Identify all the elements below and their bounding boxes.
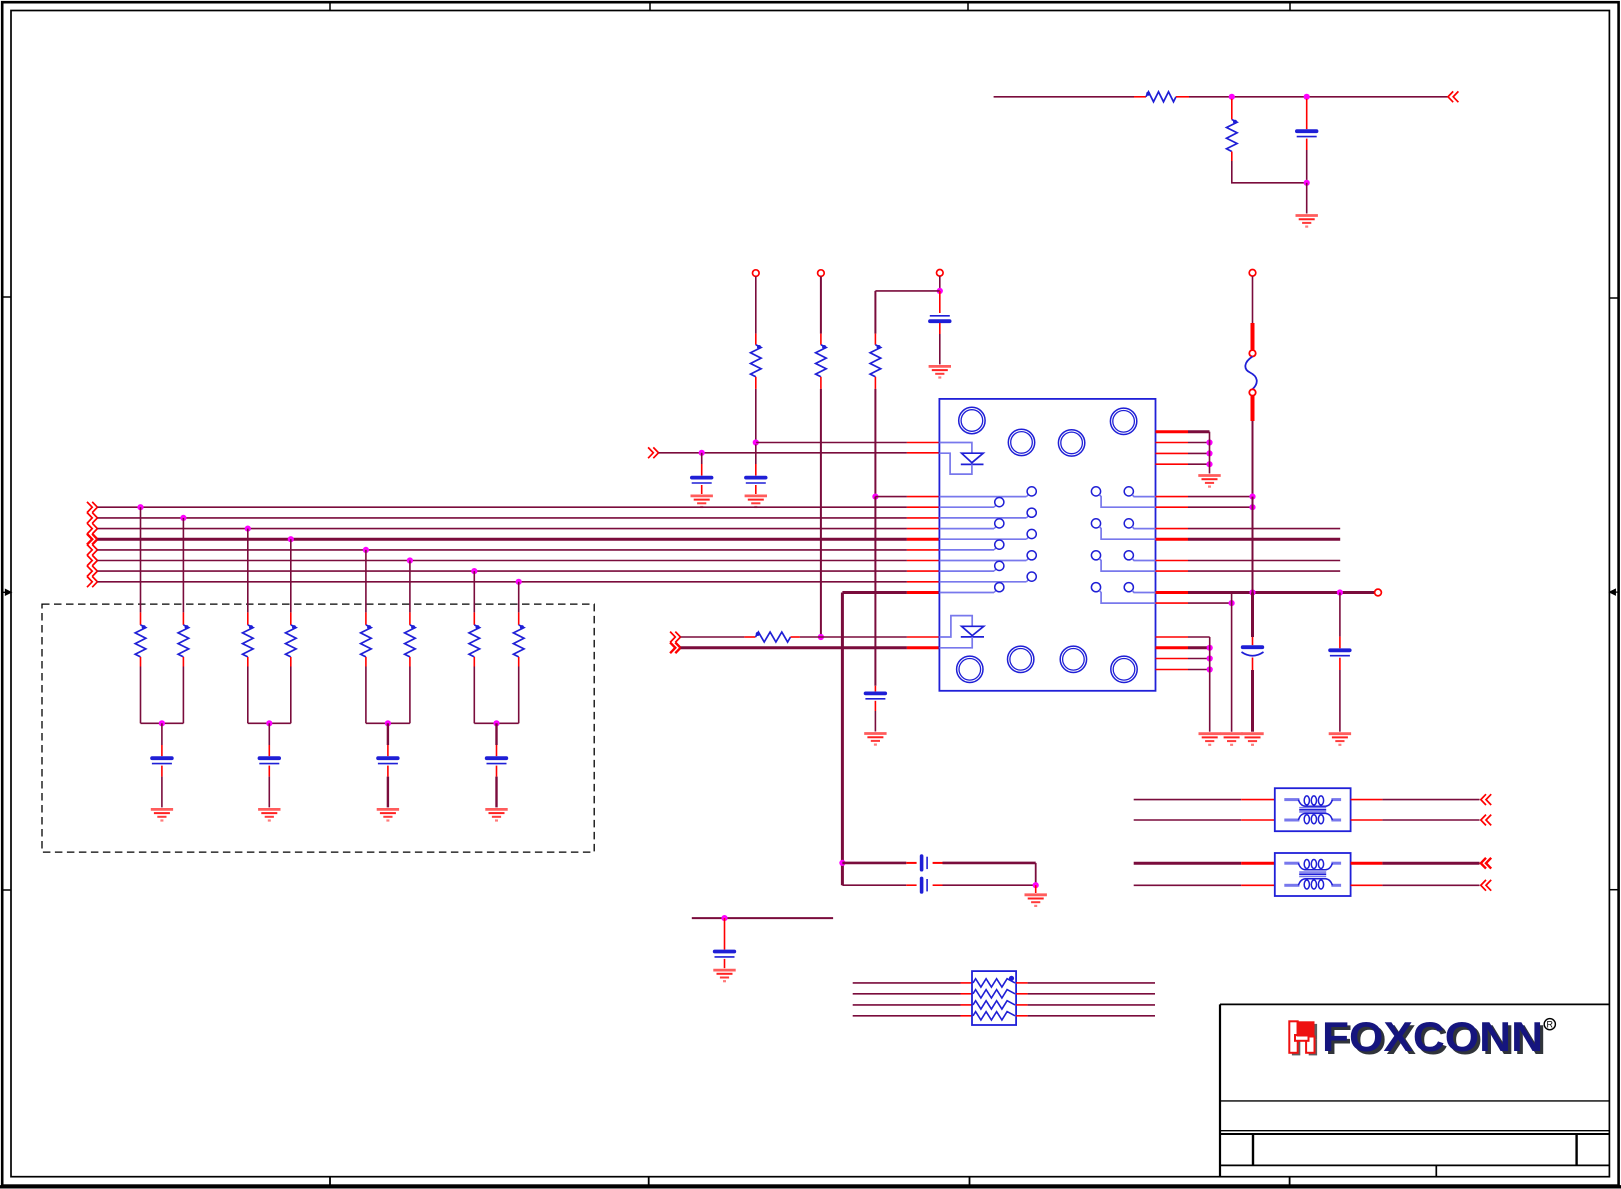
capacitor C4	[692, 476, 712, 480]
wire C2 to ground	[939, 334, 941, 364]
ground below C15	[713, 970, 735, 981]
junction node R8 tap	[245, 526, 251, 532]
fuse F1 bottom lead	[1251, 396, 1255, 421]
off-page connector T2 B	[1481, 880, 1486, 891]
wire T1 output A	[1351, 799, 1383, 801]
wire LED2 cathode net thick	[681, 646, 907, 649]
ground below C2	[929, 366, 951, 377]
wire C7 to ground	[268, 777, 270, 808]
ground rail x1231	[1220, 734, 1242, 745]
transformer T2 secondary winding	[1284, 879, 1341, 889]
wire J1 top right stubs to ground rail	[1156, 430, 1189, 433]
wire P4 down	[1252, 276, 1254, 323]
resistor R14 right lead	[791, 636, 800, 638]
resistor R1	[1146, 92, 1176, 102]
wire row7 right	[1156, 570, 1189, 572]
wire bus to R11	[409, 561, 411, 613]
connector J1 right contact pin groups	[1091, 487, 1155, 507]
wire termination pair join	[248, 722, 291, 724]
bus wires rows 1-8	[97, 506, 907, 508]
title block outline	[1219, 1004, 1221, 1176]
transformer T1 core	[1299, 808, 1326, 812]
wire T2 output B	[1351, 884, 1383, 886]
resistor R5	[870, 345, 881, 377]
capacitor C15 top lead	[724, 918, 726, 949]
wire row0 right	[1156, 496, 1189, 498]
resistor R14 left lead	[744, 636, 755, 638]
capacitor C1 bottom lead	[1306, 139, 1308, 150]
junction node pair center	[266, 720, 272, 726]
wire R4 to LED2 anode net	[820, 389, 822, 637]
off-page connector T1 A	[1481, 794, 1486, 805]
wire R5 column upper	[874, 291, 876, 334]
capacitor C6 bottom lead	[161, 766, 163, 777]
fuse F1 top pin	[1249, 350, 1255, 356]
wire R11 down	[409, 667, 411, 724]
ground below C4	[691, 496, 713, 507]
junction node row9 C12	[1337, 589, 1343, 595]
wire LED1 anode stub red	[907, 442, 940, 444]
junction node row10 rail	[1229, 600, 1235, 606]
LED1 anode routing	[939, 443, 972, 454]
ground below C11	[1241, 734, 1263, 745]
capacitor C15	[715, 950, 735, 954]
capacitor C1 top lead	[1306, 99, 1308, 129]
wire T1 output B	[1351, 819, 1383, 821]
capacitor C5 bottom lead	[755, 485, 757, 494]
capacitor C6 top lead	[161, 745, 163, 756]
wire T2 input B	[1134, 884, 1242, 886]
capacitor C6	[152, 756, 172, 760]
resistor R12 bottom lead	[473, 657, 475, 667]
wire pin10 row9 thick	[842, 591, 907, 594]
wire P2 down	[820, 277, 822, 334]
resistor R8	[243, 625, 254, 657]
junction node R11 tap	[407, 557, 413, 563]
LED2 cathode routing	[939, 637, 972, 648]
capacitor C7	[260, 756, 280, 760]
junction node top-right rail	[1206, 439, 1212, 445]
capacitor C2 bottom lead	[939, 323, 941, 334]
svg-text:R: R	[1547, 1020, 1554, 1030]
capacitor C5 top lead	[755, 445, 757, 465]
wire T1 input A	[1134, 799, 1242, 801]
junction node below C1	[1304, 180, 1310, 186]
wire T1 input B	[1134, 819, 1242, 821]
wire LED2 anode net left	[681, 636, 745, 638]
title block cell dividers	[1252, 1134, 1254, 1165]
connector J1 mounting holes top	[959, 407, 985, 433]
termination network dashed enclosure	[42, 604, 594, 852]
capacitor C4 top lead	[701, 453, 703, 464]
wire row9 to C12	[1339, 593, 1341, 637]
wire R1 to junction	[1189, 96, 1232, 98]
wire row6 right	[1156, 560, 1189, 562]
wire row4 right thick	[1156, 538, 1189, 541]
junction node row0 F1	[1249, 494, 1255, 500]
wire to off-page right	[1307, 96, 1448, 98]
capacitor C11 top lead	[1252, 637, 1254, 645]
wire join to capacitor C7	[268, 723, 270, 745]
resistor R1 left lead	[1134, 96, 1146, 98]
transformer T1 secondary winding	[1284, 813, 1341, 823]
wire row1 right	[1156, 506, 1189, 508]
wire to ground stem	[1035, 885, 1037, 893]
junction node R3 anode	[753, 439, 759, 445]
resistor R5 bottom lead	[874, 377, 876, 389]
ground rail bottom-right	[1199, 734, 1221, 745]
power port P2	[818, 270, 825, 277]
wire T2 output A thick	[1351, 862, 1383, 865]
wire cap C13 row	[842, 862, 906, 865]
capacitor C1	[1297, 129, 1317, 133]
wire join to capacitor C8	[387, 723, 389, 745]
wire C9 to ground	[495, 777, 497, 808]
wire P3 down to junction	[939, 276, 941, 291]
capacitor C9 bottom lead	[496, 766, 498, 777]
border mid arrow right	[1610, 589, 1619, 594]
wire R13 down	[518, 667, 520, 724]
resistor R7 bottom lead	[182, 657, 184, 667]
wire bottom middle net	[692, 917, 833, 919]
power port P1	[753, 270, 760, 277]
resistor pack RN1 body	[972, 971, 1016, 1025]
junction node top-right A	[1229, 94, 1235, 100]
capacitor C12 top lead	[1339, 637, 1341, 649]
resistor R6 bottom lead	[140, 657, 142, 667]
wire pin10 vertical thick	[841, 593, 844, 886]
wire join to capacitor C6	[161, 723, 163, 745]
junction node bottom-right rail	[1207, 655, 1213, 661]
border zone tick marks left	[2, 296, 11, 298]
wire bus to R10	[365, 550, 367, 613]
resistor R2 bottom lead	[1231, 152, 1233, 162]
junction node pin10 caps	[839, 860, 845, 866]
ground below C9	[485, 809, 507, 820]
junction node R9 tap	[288, 536, 294, 542]
wire P1 down	[755, 277, 757, 334]
transformer T2 primary winding	[1284, 860, 1341, 870]
wire R5 to pin1 net	[874, 389, 876, 497]
resistor R4 bottom lead	[820, 377, 822, 389]
wire bus to R8	[247, 529, 249, 613]
wire junction to R5 top	[875, 290, 939, 292]
connector J1 left contact pins	[939, 487, 1036, 497]
wire R3 to LED1 anode net	[755, 389, 757, 443]
capacitor C9 top lead	[496, 745, 498, 756]
wire ground rail x1231	[1231, 593, 1233, 732]
fuse F1 bottom pin	[1249, 389, 1255, 395]
ground below C8	[377, 809, 399, 820]
LED1 cathode routing	[939, 453, 972, 474]
capacitor C12	[1330, 648, 1350, 652]
resistor pack RN1 elements	[973, 979, 1015, 987]
wire termination pair join	[366, 722, 410, 724]
resistor R10 top lead	[365, 612, 367, 625]
resistor R5 top lead	[874, 334, 876, 345]
transformer T2 core	[1299, 872, 1326, 876]
junction node top-right rail	[1206, 461, 1212, 467]
wire F1 rail rows0-9	[1252, 497, 1254, 593]
wire C10 to ground	[874, 711, 876, 732]
capacitor C2	[930, 315, 950, 317]
wire bottom-right rail vertical	[1209, 637, 1211, 732]
resistor R4	[816, 345, 827, 377]
capacitor C4 bottom lead	[701, 485, 703, 494]
resistor R2 top lead	[1231, 99, 1233, 120]
LED2 anode routing	[939, 616, 972, 637]
wire T2 input A thick	[1134, 862, 1242, 865]
off-page connector LED1 cathode	[653, 447, 658, 458]
capacitor C10 top lead	[874, 686, 876, 692]
junction node pin1 net	[872, 494, 878, 500]
wire top-right rail vertical	[1209, 432, 1211, 474]
ground below series caps	[1025, 895, 1047, 906]
resistor R4 top lead	[820, 334, 822, 345]
wire R7 down	[182, 667, 184, 724]
wire R14 to junction	[800, 636, 821, 638]
resistor pack RN1 wires left	[853, 982, 961, 984]
wire LED1 cathode stub red	[907, 452, 940, 454]
resistor R3	[751, 345, 762, 377]
transformer T1 body	[1275, 788, 1351, 831]
wire row10 right	[1156, 602, 1189, 604]
wire LED1 anode net	[756, 442, 907, 444]
junction node R4 anode	[818, 634, 824, 640]
junction node C15	[721, 915, 727, 921]
ground below C7	[258, 809, 280, 820]
junction node R10 tap	[363, 547, 369, 553]
capacitor C15 bottom lead	[724, 959, 726, 968]
wire pin1 net down to C10	[874, 497, 876, 686]
capacitor C9	[487, 756, 507, 760]
wire bottom-right stubs to ground rail	[1156, 636, 1189, 638]
capacitor C8 bottom lead	[387, 766, 389, 777]
fuse F1 body	[1245, 357, 1256, 390]
wire bus to R6	[140, 507, 142, 612]
resistor R7 top lead	[182, 612, 184, 625]
border mid arrow left	[3, 590, 12, 595]
off-page connectors left bus	[92, 502, 97, 513]
wire top-right net	[994, 96, 1134, 98]
resistor R14	[756, 632, 791, 642]
resistor R13	[513, 625, 524, 657]
border zone tick marks top	[329, 2, 331, 10]
junction node top-right rail	[1206, 450, 1212, 456]
ground top-right	[1296, 216, 1318, 227]
wire pin1 row0	[875, 496, 907, 498]
wire junction to junction	[1232, 96, 1307, 98]
resistor R11 top lead	[409, 612, 411, 625]
Foxconn logo registered mark	[1544, 1019, 1555, 1030]
wire R10 down	[365, 667, 367, 724]
wire F1 to connector nets	[1252, 421, 1254, 497]
Foxconn logo H icon	[1289, 1021, 1317, 1055]
junction node pair center	[385, 720, 391, 726]
wire termination pair join	[474, 722, 518, 724]
wire R9 down	[290, 667, 292, 724]
transformer T2 body	[1275, 853, 1351, 896]
resistor R11 bottom lead	[409, 657, 411, 667]
wire C12 to ground	[1339, 670, 1341, 732]
wire termination pair join	[141, 722, 184, 724]
junction node R6 tap	[137, 504, 143, 510]
resistor R10	[361, 625, 372, 657]
wire bus to R9	[290, 539, 292, 612]
ground below C10	[864, 734, 886, 745]
connector J1 body	[939, 399, 1155, 691]
resistor R9 top lead	[290, 612, 292, 625]
wire row9 right thick	[1156, 591, 1189, 594]
resistor R3 top lead	[755, 334, 757, 345]
resistor pack RN1 wires right	[1016, 982, 1028, 984]
LED1 diode	[962, 453, 984, 463]
resistor R9	[286, 625, 297, 657]
capacitor C7 bottom lead	[268, 766, 270, 777]
title block row lines	[1220, 1100, 1609, 1102]
junction node row1 F1	[1249, 504, 1255, 510]
capacitor C5	[746, 476, 766, 480]
resistor R10 bottom lead	[365, 657, 367, 667]
resistor R6 top lead	[140, 612, 142, 625]
svg-text:FOXCONN: FOXCONN	[1322, 1013, 1543, 1060]
wire C13 corner down	[1035, 863, 1037, 885]
wire junction to ground	[1306, 183, 1308, 214]
capacitor C8 top lead	[387, 745, 389, 756]
resistor R6	[135, 625, 146, 657]
capacitor C11 polarized	[1243, 645, 1263, 649]
connector J1 mounting holes bottom	[957, 656, 983, 682]
ground below C5	[745, 496, 767, 507]
junction node pair center	[159, 720, 165, 726]
resistor R13 bottom lead	[518, 657, 520, 667]
junction node pair center	[493, 720, 499, 726]
junction node C14 ground	[1033, 882, 1039, 888]
transformer T1 primary winding	[1284, 796, 1341, 806]
wire junction to connector LED2 anode	[821, 636, 907, 638]
resistor R8 top lead	[247, 612, 249, 625]
wire bus to R7	[182, 518, 184, 613]
capacitor C14	[920, 878, 924, 892]
capacitor C13	[920, 856, 924, 870]
wire C6 to ground	[161, 777, 163, 808]
wire R2 bottom to junction	[1232, 161, 1307, 183]
off-page connector T1 B	[1481, 815, 1486, 826]
resistor R3 bottom lead	[755, 377, 757, 389]
off-page connector LED2 anode	[675, 632, 680, 643]
junction node bottom-right rail	[1207, 666, 1213, 672]
resistor R8 bottom lead	[247, 657, 249, 667]
ground below C6	[151, 809, 173, 820]
wire cap C14 row	[842, 884, 906, 886]
resistor R12 top lead	[473, 612, 475, 625]
resistor R1 right lead	[1176, 96, 1189, 98]
resistor R9 bottom lead	[290, 657, 292, 667]
junction node C4	[699, 450, 705, 456]
wire F1 rail below row9 thick	[1251, 593, 1254, 638]
wire R8 down	[247, 667, 249, 724]
border zone tick marks bottom	[329, 1177, 331, 1187]
ground below C12	[1329, 734, 1351, 745]
border zone tick marks right	[1609, 297, 1618, 299]
junction node R12 tap	[471, 568, 477, 574]
capacitor C10 bottom lead	[874, 701, 876, 711]
junction node P3	[937, 288, 943, 294]
capacitor C2 top lead	[939, 291, 941, 313]
wire C11 to ground	[1251, 670, 1254, 732]
off-page connector top right	[1448, 91, 1453, 102]
junction node row9 F1 rail	[1249, 589, 1255, 595]
resistor R11	[405, 625, 416, 657]
resistor pack RN1 pin1 dot	[1009, 976, 1014, 981]
wire LED1 cathode net	[659, 452, 907, 454]
off-page connector T2 A	[1481, 858, 1486, 869]
ground top-right rail	[1198, 476, 1220, 487]
resistor R7	[178, 625, 189, 657]
off-page connector LED2 cathode thick	[675, 642, 680, 653]
power port P4	[1249, 270, 1256, 277]
wire C8 to ground	[387, 777, 389, 808]
capacitor C7 top lead	[268, 745, 270, 756]
power port P3	[937, 270, 944, 277]
wire C1 to junction	[1306, 150, 1308, 183]
fuse F1 top lead	[1251, 323, 1255, 350]
junction node R7 tap	[180, 515, 186, 521]
junction node top-right B	[1304, 94, 1310, 100]
resistor R13 top lead	[518, 612, 520, 625]
wire join to capacitor C9	[495, 723, 497, 745]
junction node bottom-right rail	[1207, 645, 1213, 651]
resistor R12	[469, 625, 480, 657]
junction node R13 tap	[516, 579, 522, 585]
wire bus to R13	[518, 582, 520, 613]
capacitor C12 bottom lead	[1339, 658, 1341, 670]
wire R12 down	[473, 667, 475, 724]
capacitor C8	[378, 756, 398, 760]
wire bus to R12	[473, 571, 475, 612]
wire R6 down	[140, 667, 142, 724]
LED2 diode	[962, 626, 984, 635]
capacitor C11 bottom lead	[1252, 658, 1254, 671]
capacitor C10	[866, 692, 886, 696]
resistor R2	[1227, 120, 1238, 152]
net stub circle row9	[1375, 589, 1382, 596]
wire row3 right	[1156, 528, 1189, 530]
